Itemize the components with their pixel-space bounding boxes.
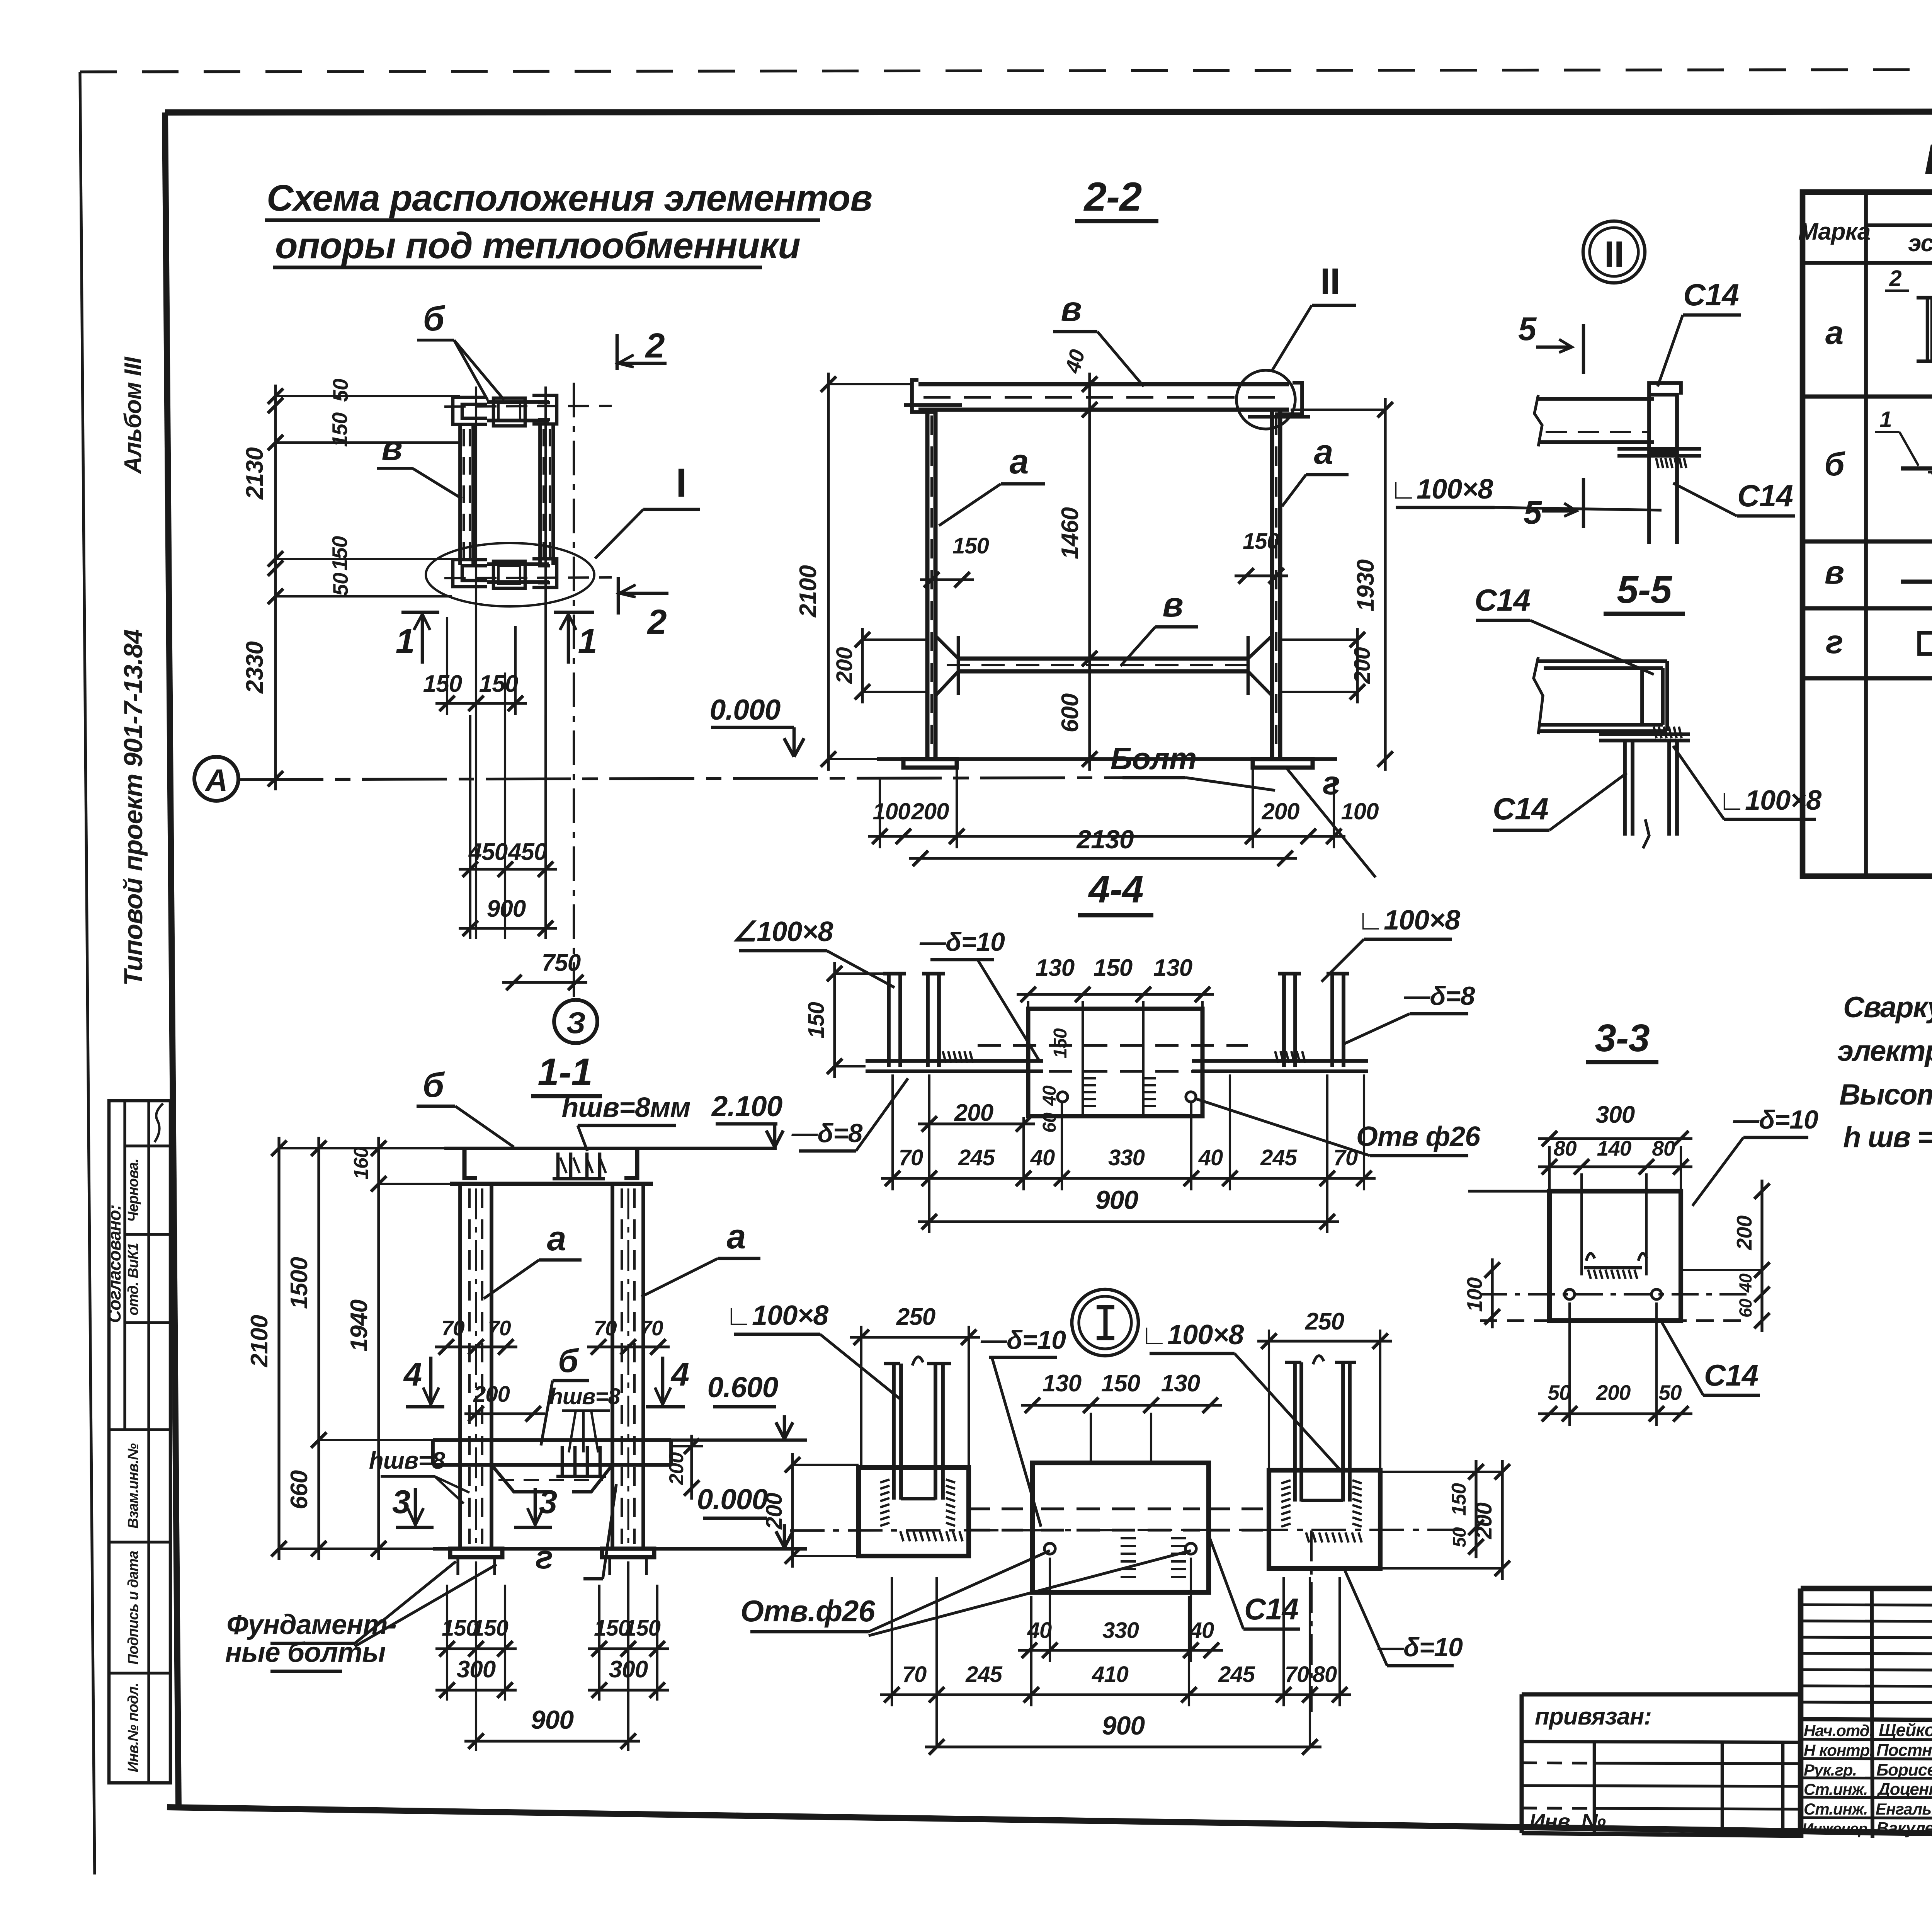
approval stamp strip inner verticals — [123, 1101, 126, 1430]
detail I: horizontal centerline — [790, 1530, 1464, 1531]
1-1: fundament bolts leaders — [355, 1561, 456, 1643]
svg-text:150: 150 — [328, 536, 352, 570]
1-1: left column flange lines — [458, 1184, 462, 1549]
1-1: section marker 4 right — [646, 1405, 685, 1409]
detail I: left column flanges extending up — [892, 1364, 896, 1500]
svg-text:150: 150 — [423, 671, 462, 697]
4-4: central holes — [1058, 1092, 1068, 1102]
detail I: right square — [1269, 1470, 1380, 1568]
3-3: plate top extension line left — [1468, 1190, 1549, 1192]
svg-text:0.600: 0.600 — [707, 1371, 778, 1403]
4-4: dim 130 150 130 — [1017, 993, 1214, 996]
svg-text:2330: 2330 — [241, 642, 268, 694]
II: shelf plate — [1617, 447, 1701, 451]
svg-text:Высоту неоговоренных сварных: Высоту неоговоренных сварных швов принят… — [1839, 1078, 1932, 1111]
3-3: dim 100 left rotated — [1491, 1258, 1493, 1328]
3-3: bolt holes — [1565, 1289, 1575, 1299]
svg-text:II: II — [1320, 261, 1340, 302]
svg-text:200: 200 — [1596, 1381, 1631, 1405]
plan: top bar beam centerline — [444, 406, 612, 407]
svg-text:в: в — [1061, 290, 1081, 329]
plan: leader from I to oval — [595, 509, 643, 558]
svg-text:Болт: Болт — [1111, 741, 1196, 776]
2-2: top beam — [918, 382, 1289, 386]
4-4: central plate — [1028, 1009, 1202, 1116]
plan: vertical centerline mid — [504, 672, 506, 939]
3-3: dim 300 top — [1538, 1137, 1692, 1140]
svg-text:—δ=10: —δ=10 — [1377, 1633, 1463, 1662]
3-3: hole centerline horizontal — [1480, 1293, 1747, 1296]
svg-text:Инженер: Инженер — [1802, 1820, 1867, 1837]
2-2: right gusset — [1248, 636, 1272, 696]
vedomost block separator rows — [1803, 395, 1932, 399]
svg-text:50: 50 — [1658, 1381, 1682, 1405]
II: beam bottom line — [1538, 440, 1654, 444]
svg-text:80: 80 — [1652, 1136, 1675, 1160]
vedomost row b sketch plate — [1901, 466, 1932, 471]
II: beam top line — [1538, 397, 1654, 401]
detail I: right web line — [1301, 1499, 1343, 1502]
svg-text:С14: С14 — [1683, 278, 1739, 312]
2-2: base line — [877, 757, 1337, 761]
svg-text:200: 200 — [954, 1100, 993, 1126]
4-4: left bottom plate — [866, 1059, 1043, 1063]
2-2: right flange plate under beam — [1248, 415, 1310, 419]
2-2: mid strut — [958, 657, 1248, 661]
svg-text:900: 900 — [1102, 1711, 1145, 1740]
svg-text:40: 40 — [1039, 1085, 1060, 1106]
1-1: anchor bolt stubs right — [608, 1557, 611, 1575]
5-5: beam left break — [1534, 657, 1543, 734]
svg-text:200: 200 — [911, 798, 949, 824]
svg-text:900: 900 — [1095, 1185, 1139, 1215]
detail I: left web line — [901, 1497, 935, 1501]
svg-text:б: б — [558, 1343, 579, 1379]
sheet outer border left — [80, 72, 95, 1874]
svg-text:150: 150 — [1050, 1028, 1071, 1058]
II: channel C14 profile — [1649, 383, 1681, 544]
svg-text:330: 330 — [1108, 1145, 1145, 1170]
svg-text:отд. ВиК1: отд. ВиК1 — [125, 1243, 141, 1315]
svg-text:С14: С14 — [1737, 478, 1793, 513]
detail I: dim 40 330 40 — [1018, 1649, 1223, 1651]
svg-text:660: 660 — [286, 1470, 313, 1509]
svg-text:Постников: Постников — [1876, 1741, 1932, 1760]
svg-text:5: 5 — [1518, 311, 1537, 347]
svg-text:а: а — [1825, 315, 1843, 351]
svg-text:80: 80 — [1313, 1662, 1337, 1687]
svg-text:70: 70 — [899, 1145, 923, 1170]
svg-text:Вакуленко: Вакуленко — [1876, 1819, 1932, 1838]
svg-text:б: б — [423, 300, 446, 338]
stamp signature squiggle — [155, 1103, 163, 1142]
3-3: weld marks inside plate — [1586, 1253, 1595, 1261]
svg-text:600: 600 — [1057, 693, 1083, 732]
2-2: right column — [1270, 410, 1274, 759]
svg-text:200: 200 — [665, 1452, 688, 1485]
plan: top bar right bracket — [532, 395, 557, 424]
2-2: right column hidden line — [1275, 415, 1277, 754]
svg-text:г: г — [1323, 765, 1340, 802]
2-2: dim 2130 — [909, 857, 1297, 860]
svg-text:50: 50 — [1548, 1381, 1571, 1405]
detail I: right column caps — [1285, 1361, 1301, 1364]
svg-text:1930: 1930 — [1352, 560, 1379, 611]
1-1: left column inner dashed — [468, 1188, 471, 1544]
svg-text:150: 150 — [952, 533, 989, 558]
svg-text:∟100×8: ∟100×8 — [1357, 905, 1461, 936]
svg-text:Отв ф26: Отв ф26 — [1356, 1121, 1481, 1152]
plan: left dim extension lines — [276, 395, 460, 397]
svg-text:в: в — [1162, 586, 1183, 624]
3-3: dim 50 200 50 bottom — [1538, 1412, 1692, 1415]
1-1: level 0.000 mark — [783, 1524, 786, 1546]
detail I: central weld hatches — [1121, 1537, 1136, 1539]
svg-text:Инв. №: Инв. № — [1529, 1809, 1606, 1834]
svg-text:200: 200 — [1471, 1502, 1497, 1539]
1-1: left dims 2100 — [277, 1137, 280, 1560]
plan: axis A centerline — [238, 778, 1144, 780]
svg-text:Н контр.: Н контр. — [1804, 1741, 1874, 1759]
1-1: right column flange lines — [611, 1184, 614, 1549]
2-2: left column hidden line — [930, 415, 933, 754]
2-2: left column — [925, 410, 930, 759]
svg-text:70: 70 — [1333, 1145, 1358, 1170]
vedomost vertical lines — [1864, 192, 1868, 876]
svg-text:50: 50 — [1449, 1527, 1470, 1548]
svg-text:40: 40 — [1198, 1145, 1223, 1170]
svg-text:∟100×8: ∟100×8 — [1141, 1319, 1244, 1350]
svg-text:привязан:: привязан: — [1535, 1703, 1651, 1730]
svg-text:1-1: 1-1 — [537, 1050, 592, 1094]
svg-text:150: 150 — [1101, 1370, 1140, 1397]
svg-text:100: 100 — [1341, 798, 1379, 824]
detail I: dims right 150 50 — [1475, 1460, 1477, 1558]
svg-text:5-5: 5-5 — [1617, 568, 1672, 611]
svg-text:2: 2 — [1889, 266, 1901, 291]
plan: dim 900 — [459, 927, 557, 930]
1-1: section marker 3 mid — [514, 1526, 552, 1529]
svg-text:200: 200 — [1261, 798, 1299, 824]
plan: vertical centerline left column — [475, 386, 477, 939]
detail I: dim 900 — [925, 1745, 1321, 1748]
svg-text:300: 300 — [1596, 1102, 1635, 1128]
1-1: bottom dims 150 150 right — [588, 1647, 669, 1650]
svg-text:З: З — [566, 1006, 585, 1040]
2-2: beam left end channel cap — [912, 380, 935, 412]
vedomost header bottom line — [1803, 261, 1932, 265]
svg-text:∠100×8: ∠100×8 — [732, 916, 833, 947]
svg-text:750: 750 — [542, 950, 581, 976]
svg-text:г: г — [1826, 624, 1843, 661]
svg-text:70: 70 — [1285, 1662, 1309, 1687]
inner frame bottom (sloped) — [167, 1807, 1932, 1843]
5-5: I-beam column below — [1623, 741, 1627, 836]
4-4: right angle pair verticals — [1282, 974, 1286, 1067]
svg-text:Енгалычева: Енгалычева — [1876, 1800, 1932, 1818]
vedomost outer box — [1803, 192, 1932, 876]
4-4: bottom dim row — [881, 1177, 1376, 1180]
approval stamp strip outline — [109, 1101, 170, 1783]
vedomost row v sketch dashed line — [1901, 580, 1932, 584]
vedomost row a sketch I-beam — [1926, 298, 1929, 361]
1-1: mid bracket — [556, 1446, 606, 1476]
plan: top bar middle plate — [493, 398, 525, 426]
5-5: column base break — [1643, 819, 1649, 848]
svg-text:Взам.инв.№: Взам.инв.№ — [125, 1444, 141, 1529]
main stamp header row line — [1801, 1719, 1932, 1721]
svg-text:160: 160 — [350, 1147, 372, 1180]
svg-text:—δ=10: —δ=10 — [919, 927, 1005, 957]
svg-text:130: 130 — [1043, 1370, 1082, 1397]
svg-text:Ст.инж.: Ст.инж. — [1804, 1800, 1867, 1818]
1-1: left column centerline — [475, 1188, 477, 1549]
1-1: top plate assembly — [464, 1148, 637, 1178]
1-1: right column centerline — [628, 1188, 629, 1549]
svg-text:2100: 2100 — [795, 565, 821, 618]
1-1: bottom dims 150 150 left — [435, 1647, 517, 1650]
plan: top bar left bracket — [453, 397, 487, 424]
1-1: mid strut top and bottom — [433, 1438, 671, 1442]
4-4: left angle pair verticals — [887, 974, 891, 1067]
detail I: left column top caps with break — [884, 1362, 900, 1365]
plan: right column flanges — [538, 424, 542, 565]
svg-text:0.000: 0.000 — [710, 693, 781, 726]
svg-text:200: 200 — [1732, 1215, 1756, 1250]
1-1: left base plate — [450, 1549, 502, 1557]
svg-text:Отв.ф26: Отв.ф26 — [740, 1594, 875, 1628]
svg-text:Ведомость элементов: Ведомость элементов — [1924, 136, 1932, 183]
5-5: channel profile — [1544, 661, 1667, 731]
2-2: top beam hidden centerline — [923, 396, 1283, 398]
2-2: mid dim line 40 1460 600 — [1088, 373, 1091, 771]
plan: section marker 2 bottom — [617, 577, 620, 615]
svg-text:4-4: 4-4 — [1088, 868, 1143, 911]
svg-text:300: 300 — [457, 1656, 496, 1683]
plan: dim 450 450 — [459, 868, 557, 870]
detail I: dim 250 left — [850, 1336, 980, 1338]
svg-text:100: 100 — [1463, 1277, 1486, 1312]
detail I: strut hidden lines — [969, 1507, 1032, 1510]
3-3: dim 80 140 80 — [1538, 1165, 1692, 1168]
svg-text:а: а — [547, 1219, 566, 1258]
plan: vertical centerline right — [544, 386, 547, 939]
detail I bubble mark — [1072, 1289, 1138, 1356]
1-1: top plate flange line — [450, 1182, 653, 1186]
svg-text:330: 330 — [1102, 1618, 1139, 1643]
svg-text:4: 4 — [403, 1356, 422, 1393]
svg-text:2: 2 — [646, 603, 667, 642]
1-1: mid strut end caps — [431, 1440, 435, 1465]
plan: bottom bar centerline — [444, 577, 612, 578]
svg-text:Согласовано:: Согласовано: — [104, 1205, 124, 1323]
svg-text:150: 150 — [804, 1002, 829, 1039]
detail I: left square weld hatch — [880, 1479, 889, 1483]
4-4: dim 150 left rotated — [833, 962, 836, 1078]
2-2: junction circle for detail II — [1236, 370, 1295, 429]
1-1: right base plate — [602, 1549, 654, 1557]
2-2: right top channel hook — [1275, 383, 1302, 414]
1-1: left dims 160 1940 — [377, 1137, 380, 1560]
svg-text:200: 200 — [832, 647, 857, 684]
svg-text:1: 1 — [395, 622, 414, 661]
svg-text:а: а — [1009, 443, 1028, 481]
svg-text:245: 245 — [1260, 1145, 1298, 1170]
plan: left dim line — [274, 385, 277, 790]
svg-text:5: 5 — [1524, 494, 1543, 531]
1-1: top level line 2.100 — [444, 1147, 777, 1150]
svg-text:2100: 2100 — [246, 1315, 273, 1367]
2-2: beam left flange plate — [904, 403, 962, 407]
title underline 2 — [273, 266, 762, 269]
svg-text:а: а — [726, 1217, 745, 1256]
svg-text:40: 40 — [1060, 347, 1090, 376]
svg-text:Типовой проект 901-7-13.84: Типовой проект 901-7-13.84 — [119, 630, 148, 986]
1-1: base line — [433, 1547, 807, 1551]
4-4: dim 200 left — [918, 1122, 1035, 1125]
plan: section marker 1 left — [401, 611, 439, 614]
svg-text:900: 900 — [531, 1705, 574, 1735]
svg-text:Борисенко: Борисенко — [1876, 1760, 1932, 1779]
svg-text:60: 60 — [1039, 1112, 1060, 1133]
svg-text:Сварку металлических элемент: Сварку металлических элементов производи… — [1843, 991, 1932, 1024]
4-4: right weld hatch — [1275, 1051, 1278, 1063]
4-4: dim 900 — [918, 1220, 1339, 1223]
privyazan table rows — [1522, 1742, 1801, 1742]
5-5: beam bottom lines — [1538, 723, 1663, 727]
svg-text:2130: 2130 — [1076, 825, 1134, 854]
plan: bottom bar beam — [487, 564, 549, 582]
3-3: dashed bottom line — [1480, 1319, 1747, 1322]
svg-text:а: а — [1314, 433, 1333, 472]
4-4: central plate weld hatches — [1082, 1077, 1096, 1079]
svg-text:∟100×8: ∟100×8 — [1390, 474, 1493, 505]
svg-text:60: 60 — [1736, 1299, 1755, 1318]
svg-text:С14: С14 — [1244, 1592, 1299, 1626]
inner frame top — [165, 111, 1932, 112]
svg-text:С14: С14 — [1704, 1358, 1759, 1392]
plan: axis A circle — [194, 757, 238, 801]
svg-text:450: 450 — [468, 839, 508, 865]
sheet outer border top (dashed) — [80, 69, 1932, 72]
svg-text:Рук.гр.: Рук.гр. — [1804, 1761, 1857, 1779]
svg-text:б: б — [1824, 446, 1845, 483]
5-5: weld hatch on shelf — [1654, 727, 1656, 738]
svg-text:Щейко: Щейко — [1879, 1720, 1932, 1740]
1-1: right column inner dashed — [621, 1188, 623, 1544]
svg-text:50: 50 — [328, 378, 352, 402]
1-1: dim 200 right rotated — [690, 1435, 693, 1500]
1-1: level 0.600 line and mark — [671, 1439, 807, 1442]
1-1: bottom dim 300 left — [435, 1689, 517, 1691]
plan: dim 750 — [502, 981, 587, 984]
1-1: strut lower hidden — [498, 1479, 603, 1481]
plan: bottom bar left bracket — [453, 560, 487, 587]
plan: leader from b to top plate — [454, 340, 504, 400]
svg-text:40: 40 — [1189, 1618, 1214, 1643]
svg-text:150: 150 — [1448, 1483, 1470, 1516]
svg-text:1940: 1940 — [346, 1300, 372, 1352]
plan: bottom bar middle plate — [493, 561, 525, 588]
4-4: central plate hidden lines — [978, 1044, 1248, 1047]
svg-text:Доценко: Доценко — [1876, 1780, 1932, 1799]
svg-text:150: 150 — [472, 1616, 509, 1641]
4-4: right angle top caps — [1278, 972, 1301, 976]
svg-text:в: в — [1825, 554, 1844, 591]
main stamp outer box — [1801, 1588, 1932, 1840]
main stamp signature rows — [1801, 1739, 1932, 1740]
svg-text:250: 250 — [896, 1304, 935, 1330]
4-4: left weld hatch — [943, 1051, 946, 1063]
svg-text:1: 1 — [1879, 407, 1891, 432]
svg-text:h шв = 6 мм.: h шв = 6 мм. — [1843, 1121, 1932, 1154]
detail I: dim right 200 — [1501, 1460, 1503, 1580]
plan: top bar beam — [487, 402, 549, 421]
svg-text:130: 130 — [1036, 955, 1075, 981]
plan: section marker 1 right — [554, 611, 594, 614]
svg-text:б: б — [423, 1066, 445, 1105]
svg-text:Нач.отд.: Нач.отд. — [1804, 1721, 1873, 1740]
svg-text:Альбом III: Альбом III — [120, 356, 146, 475]
svg-text:100: 100 — [872, 798, 910, 824]
svg-text:2: 2 — [645, 327, 665, 365]
svg-text:70: 70 — [441, 1316, 465, 1340]
svg-text:hшв=8: hшв=8 — [549, 1384, 621, 1409]
svg-text:Схема расположения элементов: Схема расположения элементов — [267, 177, 872, 219]
svg-text:2130: 2130 — [241, 448, 268, 500]
detail II bubble — [1583, 221, 1645, 283]
II: beam hidden line — [1546, 431, 1650, 433]
svg-text:Инв.№ подл.: Инв.№ подл. — [125, 1683, 141, 1772]
4-4: left angle top caps — [883, 972, 906, 976]
svg-text:50: 50 — [328, 572, 352, 596]
svg-text:3: 3 — [539, 1484, 557, 1520]
5-5: shelf plate 5-5 — [1599, 732, 1690, 736]
inner frame left — [165, 112, 179, 1807]
5-5: beam top — [1538, 659, 1667, 663]
main stamp upper thin rows — [1801, 1605, 1932, 1605]
vedomost row g sketch rect — [1919, 633, 1932, 654]
plan: section marker 2 top — [616, 334, 619, 370]
detail I: dim 200 left rotated — [791, 1453, 794, 1568]
main stamp verticals signature area — [1872, 1588, 1872, 1838]
svg-text:∟100×8: ∟100×8 — [1718, 785, 1822, 816]
svg-text:2.100: 2.100 — [711, 1090, 782, 1122]
svg-text:140: 140 — [1597, 1136, 1632, 1160]
svg-text:70: 70 — [488, 1316, 511, 1340]
vedomost header line 1 — [1866, 223, 1932, 227]
1-1: dim 70 70 right — [587, 1345, 670, 1348]
svg-text:—δ=8: —δ=8 — [791, 1119, 862, 1148]
2-2: dim 200 right — [1356, 628, 1359, 703]
svg-text:в: в — [381, 429, 402, 468]
1-1: bottom dim 900 — [464, 1740, 640, 1742]
svg-text:130: 130 — [1161, 1370, 1200, 1397]
svg-text:40: 40 — [1030, 1145, 1055, 1170]
svg-text:150: 150 — [624, 1616, 661, 1641]
svg-text:I: I — [676, 460, 687, 506]
svg-text:hшв=8мм: hшв=8мм — [561, 1092, 690, 1123]
svg-text:150: 150 — [479, 671, 518, 697]
svg-text:электродами Э42 по ГОСТ 9467: электродами Э42 по ГОСТ 9467-75. — [1837, 1035, 1932, 1067]
2-2: left base plate — [903, 759, 957, 768]
plan: left column hidden lines — [463, 429, 465, 562]
svg-text:250: 250 — [1305, 1308, 1344, 1335]
detail I: left square — [859, 1468, 969, 1556]
detail I: right weld hatch — [1281, 1480, 1291, 1483]
svg-text:300: 300 — [609, 1656, 648, 1683]
svg-text:410: 410 — [1092, 1662, 1129, 1687]
